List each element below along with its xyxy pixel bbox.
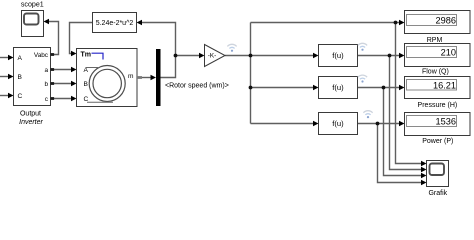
svg-text:1536: 1536 bbox=[436, 117, 456, 127]
svg-text:f(u): f(u) bbox=[332, 119, 344, 128]
svg-text:Grafik: Grafik bbox=[428, 190, 447, 197]
svg-text:RPM: RPM bbox=[427, 37, 443, 44]
svg-text:Vabc: Vabc bbox=[34, 52, 49, 59]
svg-text:2986: 2986 bbox=[436, 16, 456, 26]
svg-text:A: A bbox=[18, 55, 23, 62]
svg-text:Pressure (H): Pressure (H) bbox=[418, 102, 458, 109]
svg-text:a: a bbox=[44, 67, 48, 74]
svg-text:<Rotor speed (wm)>: <Rotor speed (wm)> bbox=[165, 83, 229, 90]
svg-text:-K-: -K- bbox=[208, 53, 217, 60]
svg-text:C: C bbox=[18, 93, 23, 100]
svg-text:16.21: 16.21 bbox=[433, 81, 456, 91]
svg-text:A: A bbox=[84, 67, 89, 74]
svg-text:Output: Output bbox=[20, 111, 41, 118]
svg-text:m: m bbox=[128, 73, 134, 80]
svg-text:Tm: Tm bbox=[81, 51, 92, 58]
svg-text:f(u): f(u) bbox=[332, 83, 344, 92]
svg-text:Inverter: Inverter bbox=[19, 119, 43, 126]
svg-text:Flow (Q): Flow (Q) bbox=[422, 69, 449, 76]
svg-text:5.24e-2*u^2: 5.24e-2*u^2 bbox=[96, 20, 134, 27]
svg-text:b: b bbox=[44, 81, 48, 88]
svg-text:scope1: scope1 bbox=[21, 1, 44, 9]
svg-text:f(u): f(u) bbox=[332, 51, 344, 60]
svg-text:210: 210 bbox=[441, 48, 456, 58]
svg-text:Power (P): Power (P) bbox=[422, 138, 453, 145]
svg-text:B: B bbox=[84, 81, 89, 88]
svg-text:B: B bbox=[18, 74, 23, 81]
